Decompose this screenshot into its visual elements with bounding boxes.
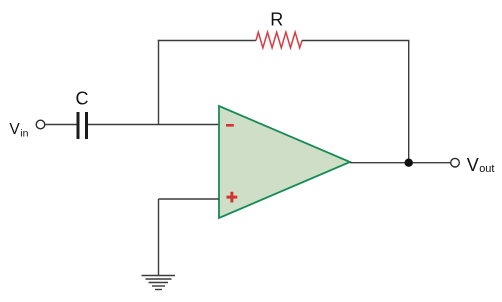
capacitor C right plate — [85, 112, 88, 139]
op-amp non-inverting input symbol (plus) — [227, 192, 238, 203]
svg-text:out: out — [479, 163, 494, 175]
capacitor C left plate — [77, 112, 80, 139]
wire resistor to right corner — [302, 40, 409, 42]
svg-text:C: C — [76, 89, 89, 109]
wire ground vertical — [158, 199, 160, 276]
svg-text:in: in — [20, 128, 28, 140]
svg-text:V: V — [9, 121, 20, 138]
op-amp U1 — [219, 106, 350, 218]
wire top horizontal to resistor — [158, 40, 256, 42]
node output junction — [405, 159, 413, 167]
resistor R — [256, 32, 302, 48]
terminal Vin — [36, 120, 45, 129]
ground — [142, 276, 176, 290]
wire op-amp output — [350, 162, 451, 164]
terminal Vout — [451, 158, 460, 167]
wire capacitor to op-amp inverting input — [88, 124, 219, 126]
wire non-inverting input horizontal — [159, 198, 220, 200]
wire input terminal to capacitor — [45, 124, 77, 126]
wire feedback vertical riser — [158, 40, 160, 125]
svg-text:R: R — [270, 9, 283, 29]
svg-text:V: V — [467, 155, 479, 175]
wire right vertical down to output node — [408, 41, 410, 164]
op-amp inverting input symbol (minus) — [226, 124, 234, 127]
